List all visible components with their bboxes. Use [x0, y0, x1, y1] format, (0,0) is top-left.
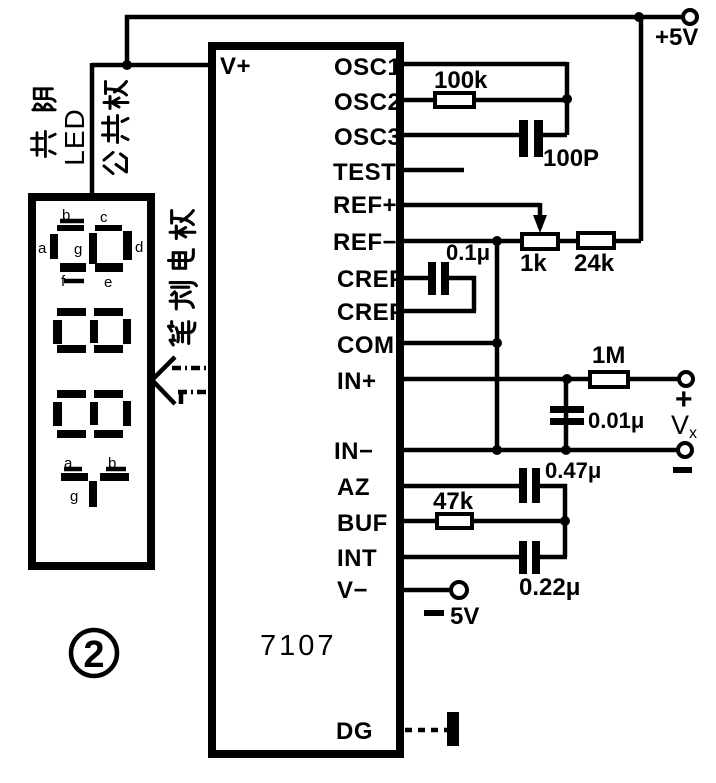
svg-text:INT: INT: [337, 545, 377, 572]
arrow segment electrodes: [152, 357, 175, 404]
pin OSC2: [334, 89, 401, 116]
pot wiper arrow 1k: [533, 215, 547, 233]
label segment b: [60, 207, 84, 224]
label Vx: [671, 410, 697, 442]
resistor 24k: [578, 233, 614, 248]
label segment c: [100, 209, 108, 226]
label common electrode char ji: [104, 82, 128, 109]
resistor 1k: [522, 234, 558, 249]
svg-text:c: c: [100, 209, 108, 226]
LED digit 4 segment b: [100, 473, 129, 481]
label Vx minus: [673, 467, 692, 473]
terminal Vx+: [679, 372, 693, 386]
pin IN+: [337, 368, 377, 395]
svg-text:DG: DG: [336, 718, 373, 745]
terminal -5V: [451, 582, 467, 598]
pin INT: [337, 545, 377, 572]
svg-text:0.22μ: 0.22μ: [519, 574, 580, 601]
label figure number 2 circle: [71, 630, 117, 676]
wire common electrode vertical: [90, 63, 95, 198]
node dot IN- rail: [492, 445, 502, 455]
wire COM: [402, 341, 497, 346]
pin OSC3: [334, 124, 401, 151]
resistor 100k: [435, 93, 474, 107]
wire corner left vertical: [125, 15, 130, 65]
label 1k: [520, 250, 547, 277]
pin BUF: [337, 510, 388, 537]
wire IN-: [402, 448, 677, 453]
label gongyin char yin: [33, 89, 55, 110]
wire DG dashed: [405, 728, 448, 733]
wire V+ to IC: [92, 63, 210, 68]
LED digit 1 segment e: [95, 263, 123, 272]
svg-text:47k: 47k: [433, 488, 474, 515]
svg-text:a: a: [38, 240, 47, 257]
LED digit 3 segments: [53, 390, 131, 438]
label segment electrode char bi: [169, 322, 195, 345]
svg-text:IN+: IN+: [337, 368, 377, 395]
wire leader dash lower: [178, 392, 206, 404]
LED digit 4 segment a: [61, 473, 88, 481]
svg-text:g: g: [74, 241, 82, 258]
wire BUF: [402, 519, 565, 524]
svg-text:IN−: IN−: [334, 438, 374, 465]
node dot BUF: [560, 516, 570, 526]
svg-text:CREF: CREF: [337, 266, 404, 293]
svg-text:TEST: TEST: [333, 159, 396, 186]
label common electrode char gong1: [104, 153, 127, 174]
label -5V: [424, 603, 479, 630]
LED digit 1 segment d: [123, 231, 132, 260]
pin V-: [337, 577, 368, 604]
label segment f: [61, 273, 84, 290]
svg-text:2: 2: [83, 634, 104, 676]
wire CREF1: [402, 276, 476, 311]
svg-text:OSC2: OSC2: [334, 89, 401, 116]
svg-text:AZ: AZ: [337, 474, 370, 501]
resistor 47k: [437, 514, 472, 528]
label segment g: [74, 241, 82, 258]
label 0.01u: [588, 408, 644, 433]
svg-text:5V: 5V: [450, 603, 479, 630]
capacitor 0.47u: [519, 468, 540, 503]
label segment e: [104, 274, 112, 291]
node dot IN- filter: [561, 445, 571, 455]
label segment a: [38, 240, 47, 257]
node dot OSC2 junction: [562, 94, 572, 104]
wire INT: [402, 555, 567, 560]
label 0.1u: [446, 240, 490, 265]
capacitor 0.22u: [519, 541, 540, 574]
label LED: [59, 108, 90, 165]
label 100P: [543, 145, 599, 172]
label gongyin char gong: [31, 131, 55, 156]
wire TEST stub: [402, 168, 464, 173]
LED digit 1 segment a: [50, 234, 58, 259]
wire input filter vertical: [564, 379, 569, 450]
label segment electrode char dian: [169, 250, 194, 269]
label 47k: [433, 488, 474, 515]
pin OSC1: [334, 54, 401, 81]
label 100k: [434, 67, 488, 94]
svg-text:g: g: [70, 488, 78, 505]
wire CREF2: [402, 309, 476, 314]
wire top +5V rail: [125, 15, 683, 20]
pin TEST: [333, 159, 396, 186]
wire OSC1: [402, 62, 567, 135]
svg-text:0.1μ: 0.1μ: [446, 240, 490, 265]
svg-text:1k: 1k: [520, 250, 547, 277]
svg-text:100k: 100k: [434, 67, 488, 94]
wire AZ: [402, 484, 567, 489]
label segment electrode char hua: [170, 283, 196, 309]
pin CREF b: [337, 299, 404, 326]
svg-text:CREF: CREF: [337, 299, 404, 326]
wire V-: [402, 588, 451, 593]
node junction dot V+: [122, 60, 132, 70]
LED digit 1 segment f: [60, 263, 86, 272]
wire +5V rail vertical: [639, 15, 644, 241]
wire REF-: [402, 239, 641, 244]
label digit4 a: [64, 455, 82, 472]
terminal Vx-: [678, 443, 692, 457]
svg-text:0.47μ: 0.47μ: [545, 458, 601, 483]
svg-text:e: e: [104, 274, 112, 291]
pin REF+: [333, 192, 397, 219]
capacitor 0.01u: [550, 406, 584, 425]
wire REF+: [402, 203, 540, 228]
node dot IN+: [562, 374, 572, 384]
pin V+: [220, 53, 251, 80]
svg-text:1M: 1M: [592, 342, 625, 369]
svg-text:OSC3: OSC3: [334, 124, 401, 151]
svg-text:+5V: +5V: [655, 24, 698, 51]
label 0.22u: [519, 574, 580, 601]
svg-text:7107: 7107: [260, 630, 337, 662]
wire analog rail: [495, 241, 500, 450]
terminal +5V: [683, 10, 697, 24]
pin REF-: [333, 229, 397, 256]
label Vx plus: [675, 383, 693, 416]
pin CREF a: [337, 266, 404, 293]
wire AZ-BUF-INT vertical: [563, 484, 568, 557]
svg-text:COM: COM: [337, 332, 395, 359]
LED digit 4 segment g: [89, 481, 97, 507]
label segment electrode char ji: [170, 211, 195, 239]
label 7107: [260, 630, 337, 662]
ground DG bar: [447, 712, 459, 746]
label 0.47u: [545, 458, 601, 483]
pin DG: [336, 718, 373, 745]
LED digit 2 segments: [53, 308, 131, 353]
resistor 1M: [590, 372, 628, 387]
svg-text:100P: 100P: [543, 145, 599, 172]
svg-text:V+: V+: [220, 53, 251, 80]
LED digit 1 segment g: [89, 233, 97, 264]
label digit4 g: [70, 488, 78, 505]
svg-text:LED: LED: [59, 108, 90, 165]
pin COM: [337, 332, 395, 359]
node dot REF- rail: [492, 236, 502, 246]
label +5V: [655, 24, 698, 51]
capacitor 100P: [519, 120, 543, 157]
label 24k: [574, 250, 615, 277]
svg-text:BUF: BUF: [337, 510, 388, 537]
svg-text:OSC1: OSC1: [334, 54, 401, 81]
label digit4 b: [106, 455, 126, 472]
svg-text:24k: 24k: [574, 250, 615, 277]
svg-text:REF+: REF+: [333, 192, 397, 219]
pin AZ: [337, 474, 370, 501]
label 1M: [592, 342, 625, 369]
svg-text:V−: V−: [337, 577, 368, 604]
svg-text:REF−: REF−: [333, 229, 397, 256]
node dot COM: [492, 338, 502, 348]
svg-text:d: d: [135, 239, 143, 256]
capacitor 0.1u: [428, 262, 449, 295]
LED digit 1 segment c: [95, 225, 122, 231]
pin IN-: [334, 438, 374, 465]
wire OSC3: [402, 133, 567, 138]
wire OSC2: [402, 98, 567, 103]
node junction dot +5V rail: [634, 12, 644, 22]
LED display box: [32, 197, 151, 566]
LED digit 1 segment b: [57, 225, 84, 231]
wire leader dash upper: [172, 366, 206, 371]
wire IN+: [402, 377, 679, 382]
label common electrode char gong2: [103, 116, 129, 143]
op-amp U1 IC 7107 box: [212, 46, 400, 754]
svg-text:0.01μ: 0.01μ: [588, 408, 644, 433]
label segment d: [135, 239, 143, 256]
